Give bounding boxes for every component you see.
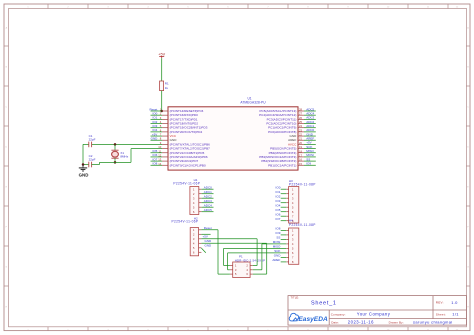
H1 pin 4 stub — [199, 202, 202, 204]
wire net +5V to U1 pin 7 — [151, 135, 163, 137]
P1 pin 2 stub — [250, 265, 253, 267]
svg-text:GND: GND — [79, 172, 89, 177]
wire net +5V from U1 pin 20 — [304, 143, 316, 145]
H4 pin 3 stub — [286, 238, 289, 240]
svg-text:ADC1: ADC1 — [204, 190, 212, 194]
wire +5V to R1 — [161, 58, 163, 81]
svg-text:22pF: 22pF — [89, 157, 96, 161]
svg-text:G: G — [5, 267, 7, 269]
connector H4 body — [289, 228, 299, 264]
svg-text:10: 10 — [158, 145, 161, 149]
power flag +5V — [158, 53, 165, 59]
svg-text:17: 17 — [299, 153, 302, 157]
svg-text:15: 15 — [299, 162, 302, 166]
U1 pin 8 stub — [162, 139, 168, 141]
wire net GND H4 — [281, 256, 287, 258]
H1 pin 1 stub — [199, 188, 202, 190]
svg-text:H: H — [467, 307, 469, 309]
wire net AREF from U1 pin 21 — [304, 139, 316, 141]
wire net IO8 to U1 pin 14 — [151, 164, 163, 166]
wire XTAL2 net — [115, 149, 162, 163]
U1 pin 16 stub — [298, 160, 304, 162]
wire XTAL1 net — [92, 143, 162, 145]
U1 pin 12 stub — [162, 156, 168, 158]
svg-text:ADC0: ADC0 — [204, 186, 212, 190]
P1 pin 1 stub — [230, 265, 233, 267]
H3 pin 5 stub — [286, 206, 289, 208]
connector P1 body — [233, 262, 250, 278]
svg-text:REV:: REV: — [436, 301, 444, 305]
H3 pin 7 stub — [286, 215, 289, 217]
svg-text:C: C — [467, 107, 469, 109]
H2 pin 2 stub — [199, 233, 202, 235]
wire crystal bottom — [114, 158, 116, 162]
svg-text:GND: GND — [274, 254, 282, 258]
wire net IO4 to U1 pin 6 — [151, 131, 163, 133]
svg-text:27: 27 — [299, 112, 302, 116]
svg-text:Sheet_1: Sheet_1 — [311, 301, 337, 307]
H2 pin 3 stub — [199, 238, 202, 240]
wire net ADC2 from U1 pin 25 — [304, 123, 316, 125]
svg-text:B: B — [6, 67, 8, 69]
wire net IO6 H3 — [281, 215, 287, 217]
U1 pin 5 stub — [162, 127, 168, 129]
wire GND to P1 pin6 — [253, 243, 267, 274]
wire net Reset to U1 pin 1 — [151, 110, 163, 112]
svg-text:1.0: 1.0 — [451, 300, 458, 305]
svg-text:D: D — [6, 147, 8, 149]
wire net ADC0 from U1 pin 23 — [304, 131, 316, 133]
wire net IO8 H4 — [281, 229, 287, 231]
wire net ADC2 H1 — [202, 197, 214, 199]
wire R1 to RESET — [161, 91, 163, 111]
U1 pin 14 stub — [162, 164, 168, 166]
svg-text:23: 23 — [299, 128, 302, 132]
wire net GND from U1 pin 22 — [304, 135, 316, 137]
wire net Reset H2 pin1 — [201, 229, 218, 231]
svg-text:IO8: IO8 — [152, 162, 157, 166]
H4 pin 8 stub — [286, 261, 289, 263]
wire net MOSI from U1 pin 17 — [304, 156, 316, 158]
wire net +5V H2 pin2 — [201, 233, 210, 235]
wire net AREF H4 — [281, 261, 287, 263]
wire net IO5 to U1 pin 11 — [151, 152, 163, 154]
EasyEDA logo — [289, 313, 328, 323]
svg-text:F: F — [6, 227, 8, 229]
junction crystal/XTAL2 — [114, 161, 117, 164]
svg-text:ADC5: ADC5 — [204, 208, 212, 212]
svg-text:20: 20 — [299, 141, 302, 145]
ground — [79, 165, 89, 178]
op-amp U1 ATMEGA328-PU body — [168, 107, 298, 170]
svg-text:+5V: +5V — [158, 53, 165, 57]
wire net ADC4 H1 — [202, 206, 214, 208]
svg-text:R1: R1 — [165, 82, 169, 86]
wire H2 pin5 tail — [201, 248, 205, 253]
svg-text:IO1: IO1 — [276, 190, 281, 194]
svg-text:sarunyu chiangmai: sarunyu chiangmai — [413, 319, 453, 324]
svg-text:P2254V-11-06P: P2254V-11-06P — [172, 220, 199, 224]
wire C2 to crystal — [100, 162, 116, 164]
wire net IO6 to U1 pin 12 — [151, 156, 163, 158]
wire net IO1 to U1 pin 3 — [151, 118, 163, 120]
svg-text:21: 21 — [299, 137, 302, 141]
svg-text:25: 25 — [299, 120, 302, 124]
U1 pin 6 stub — [162, 131, 168, 133]
P1 pin 6 stub — [250, 273, 253, 275]
U1 pin 9 stub — [162, 143, 168, 145]
wire net IO3 to U1 pin 5 — [151, 127, 163, 129]
wire net MISO from U1 pin 18 — [304, 152, 316, 154]
svg-text:D: D — [467, 147, 469, 149]
svg-text:22: 22 — [299, 133, 302, 137]
wire net ADC1 H1 — [202, 193, 214, 195]
svg-text:B: B — [467, 67, 469, 69]
U1 pin 21 stub — [298, 139, 304, 141]
svg-text:SS: SS — [276, 236, 280, 240]
svg-text:Date:: Date: — [331, 320, 339, 324]
wire net IO1 H3 — [281, 193, 287, 195]
H2 pin 4 stub — [199, 242, 202, 244]
H1 pin 3 stub — [199, 197, 202, 199]
U1 pin 26 stub — [298, 118, 304, 120]
U1 pin 18 stub — [298, 152, 304, 154]
H4 pin 4 stub — [286, 243, 289, 245]
crystal X1 8MHz — [111, 150, 128, 159]
svg-text:Company:: Company: — [331, 312, 346, 316]
wire net ADC4 from U1 pin 27 — [304, 114, 316, 116]
svg-text:H: H — [6, 307, 8, 309]
svg-text:18: 18 — [299, 149, 302, 153]
H3 pin 4 stub — [286, 202, 289, 204]
junction RESET node — [160, 110, 163, 113]
svg-text:8MHz: 8MHz — [120, 155, 128, 159]
H2 pin 6 stub — [199, 251, 202, 253]
svg-text:IO9: IO9 — [306, 162, 311, 166]
P1 pin 5 stub — [230, 273, 233, 275]
junction XTAL1/crystal — [114, 143, 117, 146]
capacitor C2 22pF — [83, 154, 100, 167]
H4 pin 7 stub — [286, 256, 289, 258]
svg-text:1k: 1k — [165, 86, 169, 90]
connector H3 body — [289, 187, 299, 224]
wire net ADC3 from U1 pin 26 — [304, 118, 316, 120]
U1 pin 7 stub — [162, 135, 168, 137]
svg-text:P2254V-11-08P: P2254V-11-08P — [289, 223, 316, 227]
svg-text:G: G — [467, 267, 469, 269]
wire net IO7 H3 — [281, 220, 287, 222]
svg-text:26: 26 — [299, 116, 302, 120]
connector H2 body — [190, 228, 198, 256]
svg-text:16: 16 — [299, 158, 302, 162]
junction GND node — [82, 163, 85, 166]
wire net SCK to P1 pin3 — [228, 253, 287, 270]
U1 pin 4 stub — [162, 123, 168, 125]
wire net MISO to P1 pin1 — [224, 248, 287, 265]
H4 pin 6 stub — [286, 252, 289, 254]
U1 pin 13 stub — [162, 160, 168, 162]
svg-text:EasyEDA: EasyEDA — [298, 316, 328, 323]
U1 pin 19 stub — [298, 148, 304, 150]
wire crystal top — [114, 144, 116, 150]
U1 pin 11 stub — [162, 152, 168, 154]
H2 pin 5 stub — [199, 247, 202, 249]
svg-text:A: A — [6, 27, 8, 30]
svg-text:ADC2: ADC2 — [204, 195, 212, 199]
U1 pin 10 stub — [162, 148, 168, 150]
svg-text:IO0: IO0 — [276, 186, 281, 190]
wire net IO0 H3 — [281, 188, 287, 190]
svg-text:C: C — [6, 107, 8, 109]
U1 pin 25 stub — [298, 123, 304, 125]
H2 pin 1 stub — [199, 229, 202, 231]
wire net IO9 H4 — [281, 234, 287, 236]
wire net ADC0 H1 — [202, 188, 214, 190]
wire net IO4 H3 — [281, 206, 287, 208]
svg-text:IO6: IO6 — [276, 213, 281, 217]
svg-text:Your Company: Your Company — [357, 311, 391, 316]
svg-text:IO7: IO7 — [276, 217, 281, 221]
svg-text:IO2: IO2 — [276, 195, 281, 199]
wire net IO3 H3 — [281, 202, 287, 204]
connector H1 body — [190, 187, 199, 215]
svg-text:28: 28 — [299, 108, 302, 112]
wire net IO2 to U1 pin 4 — [151, 123, 163, 125]
svg-text:Drawn By:: Drawn By: — [389, 320, 404, 324]
wire net GND H2 pin3 — [201, 238, 257, 240]
svg-text:(PCINT0/CLKO/ICP1)PB0: (PCINT0/CLKO/ICP1)PB0 — [170, 163, 206, 167]
svg-text:GND: GND — [205, 239, 213, 243]
svg-text:IO8: IO8 — [276, 227, 281, 231]
svg-text:P2254V-11-06P: P2254V-11-06P — [173, 182, 200, 186]
H1 pin 5 stub — [199, 206, 202, 208]
wire C1-C2 left rail — [82, 144, 84, 164]
H3 pin 2 stub — [286, 193, 289, 195]
wire net MOSI to P1 pin4 — [253, 244, 286, 270]
H4 pin 1 stub — [286, 229, 289, 231]
svg-text:1/1: 1/1 — [452, 311, 459, 316]
U1 pin 17 stub — [298, 156, 304, 158]
svg-text:Sheet:: Sheet: — [436, 312, 446, 316]
wire Reset to P1 pin5 — [218, 230, 230, 274]
H1 pin 6 stub — [199, 211, 202, 213]
resistor R1 — [160, 81, 169, 91]
wire net GND to U1 pin 8 — [151, 139, 163, 141]
svg-text:IO5: IO5 — [276, 208, 281, 212]
U1 pin 23 stub — [298, 131, 304, 133]
U1 pin 28 stub — [298, 110, 304, 112]
title block — [288, 295, 467, 325]
wire net IO7 to U1 pin 13 — [151, 160, 163, 162]
U1 pin 22 stub — [298, 135, 304, 137]
svg-text:AREF: AREF — [272, 258, 280, 262]
U1 pin 2 stub — [162, 114, 168, 116]
svg-text:IO4: IO4 — [276, 204, 281, 208]
svg-text:24: 24 — [299, 124, 302, 128]
svg-text:19: 19 — [299, 145, 302, 149]
wire net SCK from U1 pin 19 — [304, 148, 316, 150]
H3 pin 1 stub — [286, 188, 289, 190]
P1 pin 4 stub — [250, 269, 253, 271]
svg-text:A: A — [467, 27, 469, 30]
wire net IO5 H3 — [281, 211, 287, 213]
svg-text:Reset: Reset — [204, 226, 212, 230]
svg-text:ADC3: ADC3 — [204, 199, 212, 203]
wire net GND H2 pin4 — [201, 242, 266, 244]
wire net ADC5 H1 — [202, 211, 214, 213]
wire net SS H4 — [281, 238, 287, 240]
capacitor C1 22pF — [83, 134, 96, 147]
svg-text:ATMEGA328-PU: ATMEGA328-PU — [240, 101, 266, 105]
H3 pin 3 stub — [286, 197, 289, 199]
U1 pin 15 stub — [298, 164, 304, 166]
svg-text:ADC4: ADC4 — [204, 204, 212, 208]
svg-text:P2254V-11-08P: P2254V-11-08P — [289, 182, 316, 186]
U1 pin 24 stub — [298, 127, 304, 129]
svg-text:+5V: +5V — [203, 234, 208, 238]
H4 pin 2 stub — [286, 234, 289, 236]
P1 pin 3 stub — [230, 269, 233, 271]
svg-text:GND: GND — [205, 243, 213, 247]
svg-text:TITLE:: TITLE: — [291, 295, 300, 299]
svg-text:IO9: IO9 — [276, 231, 281, 235]
wire net IO2 H3 — [281, 197, 287, 199]
wire GND to P1 pin2 — [253, 239, 257, 266]
U1 pin 1 stub — [162, 110, 168, 112]
U1 pin 3 stub — [162, 118, 168, 120]
wire net ADC5 from U1 pin 28 — [304, 110, 316, 112]
svg-text:F: F — [467, 227, 469, 229]
svg-text:E: E — [6, 187, 8, 189]
wire net IO0 to U1 pin 2 — [151, 114, 163, 116]
H1 pin 2 stub — [199, 193, 202, 195]
svg-text:E: E — [467, 187, 469, 189]
U1 pin 20 stub — [298, 143, 304, 145]
svg-text:IO3: IO3 — [276, 199, 281, 203]
H4 pin 5 stub — [286, 247, 289, 249]
svg-text:22pF: 22pF — [89, 137, 96, 141]
H3 pin 6 stub — [286, 211, 289, 213]
wire net IO9 from U1 pin 15 — [304, 164, 316, 166]
wire net ADC3 H1 — [202, 202, 214, 204]
svg-text:GND: GND — [151, 137, 159, 141]
U1 pin 27 stub — [298, 114, 304, 116]
wire net ADC1 from U1 pin 24 — [304, 127, 316, 129]
H3 pin 8 stub — [286, 220, 289, 222]
svg-text:2023-11-16: 2023-11-16 — [348, 319, 374, 324]
wire net SS from U1 pin 16 — [304, 160, 316, 162]
svg-text:PB1(OC1A/PCINT1): PB1(OC1A/PCINT1) — [268, 163, 296, 167]
